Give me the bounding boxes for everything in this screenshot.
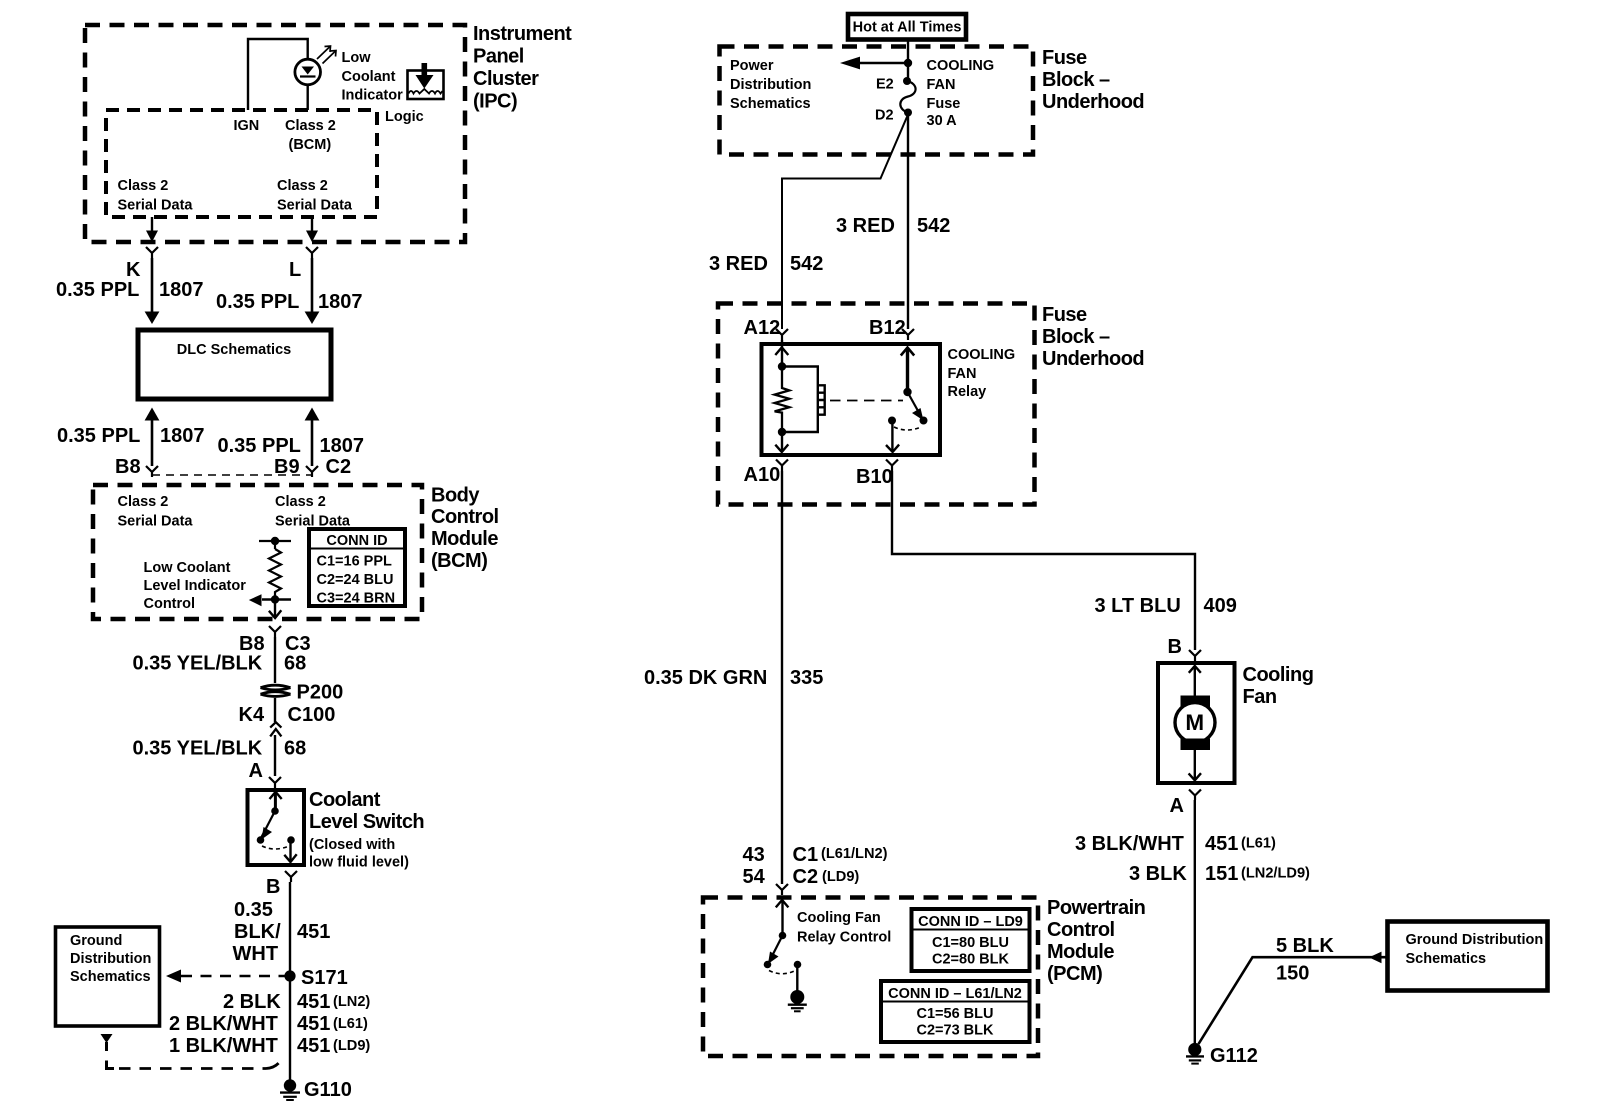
connector B8 bbox=[146, 466, 158, 477]
svg-text:43: 43 bbox=[743, 844, 765, 866]
svg-text:1 BLK/WHT: 1 BLK/WHT bbox=[169, 1035, 278, 1057]
svg-text:3 BLK: 3 BLK bbox=[1129, 863, 1187, 885]
wire D2 branch to A12 (diagonal) bbox=[782, 115, 908, 330]
indicator lamp (low coolant) bbox=[295, 59, 321, 85]
relay coil inductor bbox=[782, 367, 825, 433]
svg-text:A: A bbox=[1170, 795, 1184, 817]
svg-text:451: 451 bbox=[297, 991, 330, 1013]
svg-text:(LD9): (LD9) bbox=[333, 1038, 370, 1054]
svg-text:(PCM): (PCM) bbox=[1047, 963, 1102, 985]
svg-text:COOLING: COOLING bbox=[948, 347, 1016, 363]
svg-text:C2: C2 bbox=[793, 866, 819, 888]
svg-text:Powertrain: Powertrain bbox=[1047, 897, 1145, 919]
svg-text:B12: B12 bbox=[869, 317, 906, 339]
svg-text:(L61): (L61) bbox=[333, 1016, 368, 1032]
BCM dashed box bbox=[93, 485, 422, 619]
relay switch pin B12 wire bbox=[901, 348, 914, 397]
svg-text:2 BLK: 2 BLK bbox=[223, 991, 281, 1013]
relay switch blade bbox=[908, 392, 928, 425]
connector A bbox=[269, 777, 281, 790]
svg-text:CONN ID – L61/LN2: CONN ID – L61/LN2 bbox=[888, 986, 1022, 1002]
svg-text:0.35 PPL: 0.35 PPL bbox=[56, 279, 139, 301]
svg-text:1807: 1807 bbox=[160, 425, 205, 447]
cooling fan motor M bbox=[1175, 666, 1215, 780]
connector A10 bbox=[776, 460, 788, 472]
svg-text:Ground Distribution: Ground Distribution bbox=[1406, 932, 1544, 948]
wire lamp to inner box bbox=[307, 86, 309, 111]
svg-text:D2: D2 bbox=[875, 108, 894, 124]
svg-text:Class 2: Class 2 bbox=[118, 178, 169, 194]
svg-text:68: 68 bbox=[284, 653, 306, 675]
svg-text:0.35 DK GRN: 0.35 DK GRN bbox=[644, 667, 767, 689]
svg-text:Block –: Block – bbox=[1042, 69, 1110, 91]
svg-text:Relay: Relay bbox=[948, 384, 987, 400]
relay switch dashed throw arc bbox=[894, 427, 921, 430]
wire from Hot banner into fuse block bbox=[907, 40, 909, 82]
svg-text:Hot at All Times: Hot at All Times bbox=[853, 20, 962, 36]
svg-text:451: 451 bbox=[297, 1013, 330, 1035]
svg-text:Logic: Logic bbox=[385, 109, 424, 125]
svg-text:low fluid level): low fluid level) bbox=[309, 855, 409, 871]
svg-text:3 RED: 3 RED bbox=[709, 253, 768, 275]
connector B12 bbox=[902, 329, 914, 340]
svg-text:Class 2: Class 2 bbox=[277, 178, 328, 194]
DLC Schematics box bbox=[138, 330, 331, 399]
svg-text:P200: P200 bbox=[297, 682, 344, 704]
svg-text:Class 2: Class 2 bbox=[285, 118, 336, 134]
svg-text:C1: C1 bbox=[793, 844, 819, 866]
svg-text:Fuse: Fuse bbox=[927, 96, 961, 112]
BCM internal resistor bbox=[259, 537, 291, 604]
splice S171 bbox=[284, 970, 295, 981]
svg-text:(BCM): (BCM) bbox=[289, 137, 332, 153]
svg-text:CONN ID: CONN ID bbox=[326, 533, 387, 549]
wire L to DLC bbox=[305, 258, 320, 324]
svg-text:451: 451 bbox=[297, 921, 330, 943]
IPC outer dashed box bbox=[85, 25, 465, 242]
wire B10 to cooling fan bbox=[892, 471, 1195, 650]
cooling fan relay box bbox=[762, 344, 941, 455]
svg-text:Instrument: Instrument bbox=[473, 23, 572, 45]
svg-text:C1=80 BLU: C1=80 BLU bbox=[932, 935, 1009, 951]
svg-text:B: B bbox=[1168, 636, 1182, 658]
svg-text:0.35 PPL: 0.35 PPL bbox=[57, 425, 140, 447]
svg-text:(LN2/LD9): (LN2/LD9) bbox=[1241, 866, 1310, 882]
svg-text:B10: B10 bbox=[856, 466, 893, 488]
svg-text:Distribution: Distribution bbox=[730, 77, 811, 93]
svg-text:DLC Schematics: DLC Schematics bbox=[177, 342, 291, 358]
IPC inner dashed box bbox=[106, 110, 377, 217]
inline connector C100 (double chevron) bbox=[270, 722, 281, 736]
wire B9 up into DLC bbox=[305, 408, 320, 467]
PCM relay control driver bbox=[764, 900, 802, 974]
connector A (cooling fan) bbox=[1189, 790, 1201, 801]
Hot at All Times banner bbox=[848, 14, 966, 40]
svg-text:3 BLK/WHT: 3 BLK/WHT bbox=[1075, 833, 1184, 855]
svg-text:Module: Module bbox=[431, 528, 498, 550]
svg-text:151: 151 bbox=[1205, 863, 1238, 885]
svg-text:Power: Power bbox=[730, 58, 774, 74]
svg-text:C1=56 BLU: C1=56 BLU bbox=[917, 1006, 994, 1022]
fuse block underhood dashed box (top) bbox=[720, 47, 1034, 155]
svg-text:Low: Low bbox=[342, 50, 372, 66]
svg-text:0.35 PPL: 0.35 PPL bbox=[218, 435, 301, 457]
svg-text:C2=73 BLK: C2=73 BLK bbox=[917, 1023, 994, 1039]
svg-text:Level Indicator: Level Indicator bbox=[144, 578, 247, 594]
svg-text:Low Coolant: Low Coolant bbox=[144, 560, 231, 576]
svg-text:Underhood: Underhood bbox=[1042, 91, 1144, 113]
svg-text:Indicator: Indicator bbox=[342, 88, 404, 104]
relay pin A10 wire bbox=[775, 432, 788, 452]
connector B8/C3 below BCM bbox=[269, 626, 281, 637]
CONN ID table (BCM) bbox=[309, 529, 405, 607]
svg-text:Coolant: Coolant bbox=[342, 69, 396, 85]
svg-text:451: 451 bbox=[297, 1035, 330, 1057]
switch contacts and blade bbox=[257, 792, 297, 862]
svg-text:0.35 PPL: 0.35 PPL bbox=[216, 291, 299, 313]
relay coil bottom junction bbox=[778, 428, 786, 436]
svg-text:542: 542 bbox=[917, 215, 950, 237]
svg-text:C100: C100 bbox=[288, 704, 336, 726]
wire A10 to PCM bbox=[781, 471, 783, 884]
wire B8/C3 to P200 bbox=[274, 637, 276, 683]
svg-text:Module: Module bbox=[1047, 941, 1114, 963]
wire C100 to switch pin A bbox=[274, 735, 276, 776]
svg-text:(Closed with: (Closed with bbox=[309, 837, 395, 853]
svg-text:B: B bbox=[266, 876, 280, 898]
coolant level switch box bbox=[248, 790, 305, 865]
connector K bbox=[146, 247, 158, 258]
ground G110 bbox=[280, 1079, 300, 1100]
svg-text:Fuse: Fuse bbox=[1042, 47, 1087, 69]
svg-text:C3=24 BRN: C3=24 BRN bbox=[317, 591, 396, 607]
svg-text:C2=80 BLK: C2=80 BLK bbox=[932, 952, 1009, 968]
svg-text:K4: K4 bbox=[239, 704, 265, 726]
svg-text:1807: 1807 bbox=[159, 279, 204, 301]
svg-text:Level Switch: Level Switch bbox=[309, 811, 424, 833]
svg-text:Serial Data: Serial Data bbox=[118, 514, 194, 530]
svg-text:S171: S171 bbox=[301, 967, 348, 989]
dashed reference arrow below ground box bbox=[101, 1034, 282, 1069]
svg-text:0.35 YEL/BLK: 0.35 YEL/BLK bbox=[133, 738, 263, 760]
relay switch common contact bbox=[888, 417, 896, 425]
wire D2 down to B12 bbox=[907, 113, 909, 330]
connector B10 bbox=[886, 460, 898, 472]
ground G112 bbox=[1186, 1043, 1204, 1064]
svg-text:Underhood: Underhood bbox=[1042, 348, 1144, 370]
svg-text:Block –: Block – bbox=[1042, 326, 1110, 348]
svg-text:B8: B8 bbox=[115, 456, 141, 478]
svg-text:0.35 YEL/BLK: 0.35 YEL/BLK bbox=[133, 653, 263, 675]
CONN ID - LD9 table bbox=[912, 909, 1030, 971]
svg-text:(L61/LN2): (L61/LN2) bbox=[821, 846, 888, 862]
CONN ID - L61/LN2 table bbox=[881, 981, 1030, 1042]
svg-text:1807: 1807 bbox=[320, 435, 365, 457]
svg-text:0.35: 0.35 bbox=[234, 899, 273, 921]
wire B8 up into DLC bbox=[145, 408, 160, 467]
relay coil resistor bbox=[775, 367, 790, 433]
wire B down to S171 bbox=[289, 882, 291, 976]
BCM output arrow (left) bbox=[249, 594, 291, 606]
ground distribution schematics box (right) bbox=[1388, 922, 1548, 991]
junction to power distribution arrow bbox=[904, 59, 912, 67]
svg-text:Serial Data: Serial Data bbox=[118, 198, 194, 214]
svg-text:150: 150 bbox=[1276, 963, 1309, 985]
ground distribution schematics box (left) bbox=[56, 927, 160, 1026]
svg-text:BLK/: BLK/ bbox=[234, 921, 281, 943]
svg-text:(BCM): (BCM) bbox=[431, 550, 487, 572]
svg-text:409: 409 bbox=[1204, 595, 1237, 617]
svg-text:CONN ID – LD9: CONN ID – LD9 bbox=[918, 914, 1023, 930]
svg-text:Cooling: Cooling bbox=[1243, 664, 1314, 686]
cooling fan box bbox=[1158, 663, 1235, 783]
connector L bbox=[306, 247, 318, 258]
svg-text:C2: C2 bbox=[326, 456, 352, 478]
svg-text:Distribution: Distribution bbox=[70, 951, 151, 967]
arrow to power distribution schematics bbox=[840, 57, 908, 70]
svg-text:1807: 1807 bbox=[318, 291, 363, 313]
svg-text:(LN2): (LN2) bbox=[333, 994, 370, 1010]
svg-text:Fan: Fan bbox=[1243, 686, 1277, 708]
svg-text:FAN: FAN bbox=[948, 366, 977, 382]
wire S171 to G110 bbox=[289, 976, 291, 1082]
svg-text:Schematics: Schematics bbox=[1406, 951, 1487, 967]
lamp light rays bbox=[317, 46, 336, 64]
svg-text:Cooling Fan: Cooling Fan bbox=[797, 910, 881, 926]
svg-text:Class 2: Class 2 bbox=[275, 494, 326, 510]
wire P200 to C100 break bbox=[274, 698, 276, 722]
svg-text:Panel: Panel bbox=[473, 46, 524, 68]
fuse COOLING FAN Fuse 30 A bbox=[900, 81, 915, 113]
connector A12 bbox=[776, 329, 788, 340]
svg-text:IGN: IGN bbox=[234, 118, 260, 134]
svg-text:54: 54 bbox=[743, 866, 766, 888]
svg-text:(LD9): (LD9) bbox=[822, 869, 859, 885]
relay actuation dashed link bbox=[830, 400, 903, 402]
svg-text:G112: G112 bbox=[1210, 1045, 1258, 1067]
fuse block underhood dashed box (relay) bbox=[718, 304, 1035, 505]
svg-text:G110: G110 bbox=[304, 1079, 352, 1101]
svg-text:M: M bbox=[1185, 710, 1204, 735]
BCM wire down to B8/C3 pin bbox=[269, 600, 281, 619]
svg-text:335: 335 bbox=[790, 667, 823, 689]
wire L exits IPC bbox=[306, 217, 318, 242]
svg-text:30 A: 30 A bbox=[927, 113, 958, 129]
connector B9/C2 bbox=[306, 466, 318, 477]
svg-text:(L61): (L61) bbox=[1241, 836, 1276, 852]
svg-text:Ground: Ground bbox=[70, 933, 122, 949]
svg-text:Control: Control bbox=[144, 596, 196, 612]
svg-text:2 BLK/WHT: 2 BLK/WHT bbox=[169, 1013, 278, 1035]
PCM internal ground bbox=[788, 965, 807, 1012]
svg-text:Relay Control: Relay Control bbox=[797, 930, 891, 946]
wire A to G112 bbox=[1194, 800, 1196, 1047]
svg-text:68: 68 bbox=[284, 738, 306, 760]
relay pin B10 wire bbox=[886, 421, 899, 453]
PCM dashed box bbox=[703, 898, 1038, 1057]
connector B bbox=[285, 871, 297, 882]
svg-text:FAN: FAN bbox=[927, 77, 956, 93]
svg-text:A10: A10 bbox=[744, 464, 781, 486]
svg-text:K: K bbox=[126, 259, 141, 281]
svg-text:Coolant: Coolant bbox=[309, 789, 381, 811]
svg-text:A12: A12 bbox=[744, 317, 781, 339]
svg-text:Cluster: Cluster bbox=[473, 68, 539, 90]
svg-text:(IPC): (IPC) bbox=[473, 91, 517, 113]
terminal E2 bbox=[903, 77, 911, 85]
svg-text:Schematics: Schematics bbox=[730, 96, 811, 112]
svg-text:COOLING: COOLING bbox=[927, 58, 995, 74]
logic icon (fluid level symbol) bbox=[408, 63, 444, 99]
relay coil pin A12 wire bbox=[775, 340, 788, 371]
connector C1/C2 into PCM bbox=[776, 884, 788, 895]
wire K to DLC bbox=[145, 258, 160, 324]
svg-text:3 LT BLU: 3 LT BLU bbox=[1095, 595, 1181, 617]
svg-text:Control: Control bbox=[431, 506, 499, 528]
svg-text:Fuse: Fuse bbox=[1042, 304, 1087, 326]
svg-text:451: 451 bbox=[1205, 833, 1238, 855]
svg-text:C1=16 PPL: C1=16 PPL bbox=[317, 554, 393, 570]
grommet P200 bbox=[261, 685, 291, 696]
connector B (cooling fan) bbox=[1189, 650, 1201, 661]
wire K exits IPC bbox=[146, 217, 158, 242]
dashed reference arrow to S171 bbox=[166, 970, 290, 983]
svg-text:L: L bbox=[289, 259, 301, 281]
svg-text:Body: Body bbox=[431, 485, 480, 507]
svg-text:Class 2: Class 2 bbox=[118, 494, 169, 510]
svg-text:A: A bbox=[249, 760, 263, 782]
svg-text:Serial Data: Serial Data bbox=[277, 198, 353, 214]
svg-text:WHT: WHT bbox=[233, 943, 279, 965]
svg-text:Schematics: Schematics bbox=[70, 969, 151, 985]
svg-text:Control: Control bbox=[1047, 919, 1115, 941]
svg-text:542: 542 bbox=[790, 253, 823, 275]
svg-text:5 BLK: 5 BLK bbox=[1276, 935, 1334, 957]
wire IGN feed (top-left loop) bbox=[248, 39, 308, 110]
svg-text:C2=24 BLU: C2=24 BLU bbox=[317, 572, 394, 588]
svg-text:E2: E2 bbox=[876, 77, 894, 93]
dashed link between B8 and B9 connectors bbox=[152, 474, 312, 476]
wire G112 branch to ground distribution bbox=[1199, 957, 1388, 1044]
svg-text:3 RED: 3 RED bbox=[836, 215, 895, 237]
